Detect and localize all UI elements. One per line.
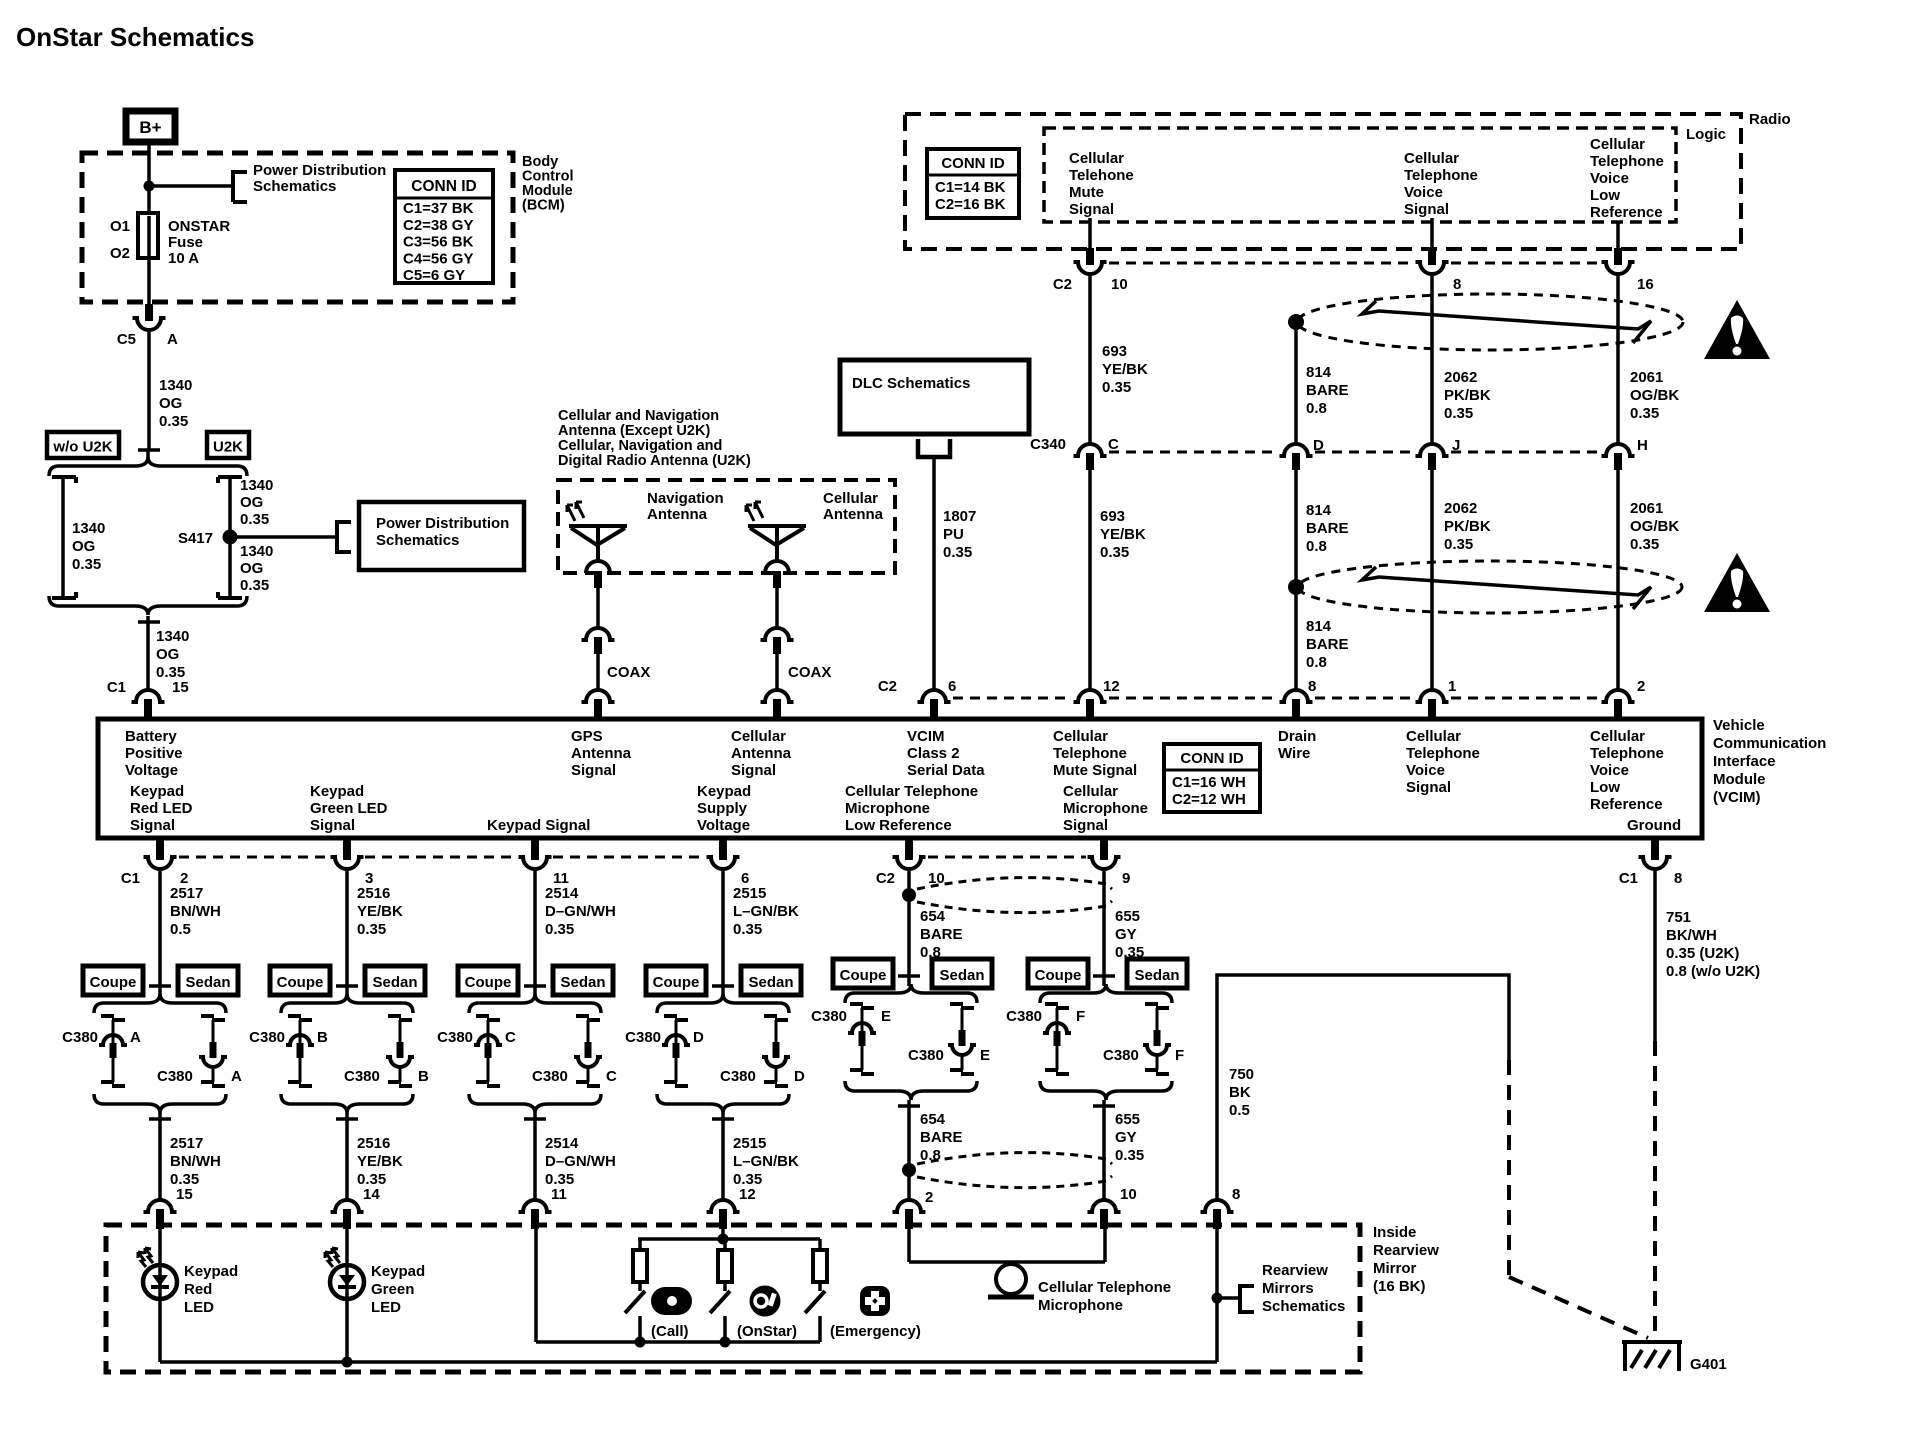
connector C340 pin H	[1602, 444, 1635, 456]
svg-text:B+: B+	[139, 118, 161, 137]
svg-text:1340: 1340	[240, 477, 273, 494]
svg-text:Red LED: Red LED	[130, 800, 193, 817]
svg-text:C340: C340	[1030, 436, 1066, 453]
svg-text:F: F	[1175, 1047, 1184, 1064]
svg-text:Schematics: Schematics	[1262, 1298, 1345, 1315]
box Power Distribution Schematics	[359, 502, 524, 570]
wire 693 YE/BK 0.35 (C340 to VCIM 12)	[1088, 470, 1092, 690]
svg-text:B: B	[317, 1029, 328, 1046]
wire voice low ref to radio pin	[1616, 221, 1620, 248]
connector VCIM bottom ground C1 pin 8	[1639, 857, 1672, 869]
svg-text:0.35: 0.35	[357, 921, 386, 938]
svg-text:Microphone: Microphone	[1038, 1297, 1123, 1314]
svg-text:Signal: Signal	[310, 817, 355, 834]
wire 814 BARE 0.8 (shield node to VCIM 8)	[1294, 587, 1298, 690]
svg-text:Antenna: Antenna	[647, 506, 708, 523]
svg-text:OG: OG	[240, 494, 263, 511]
svg-text:C2=38 GY: C2=38 GY	[403, 217, 473, 234]
svg-text:OG: OG	[156, 646, 179, 663]
wire 2515 L–GN/BK (VCIM to C380 D)	[721, 869, 725, 986]
svg-text:O1: O1	[110, 218, 130, 235]
connector C340 pin D	[1280, 444, 1313, 456]
svg-text:2516: 2516	[357, 1135, 390, 1152]
svg-text:LED: LED	[184, 1299, 214, 1316]
antenna dashed box	[558, 480, 895, 573]
svg-text:Telephone: Telephone	[1404, 167, 1478, 184]
svg-text:C380: C380	[437, 1029, 473, 1046]
svg-text:Cellular: Cellular	[1590, 136, 1645, 153]
svg-text:Sedan: Sedan	[372, 974, 417, 991]
svg-text:750: 750	[1229, 1066, 1254, 1083]
svg-text:0.35: 0.35	[1115, 1147, 1144, 1164]
svg-text:(Emergency): (Emergency)	[830, 1323, 921, 1340]
connector C380 A coupe half	[101, 1014, 114, 1018]
keypad supply wire to resistor rail	[721, 1229, 725, 1239]
wire 655 GY (VCIM to C380 F)	[1102, 869, 1106, 976]
svg-text:ONSTAR: ONSTAR	[168, 218, 230, 235]
node onstar switch to rail	[720, 1337, 731, 1348]
wire 655 GY (C380 F down)	[1102, 1100, 1106, 1200]
svg-text:2517: 2517	[170, 885, 203, 902]
warning symbol 1	[1704, 300, 1770, 359]
svg-text:2062: 2062	[1444, 500, 1477, 517]
svg-text:Sedan: Sedan	[1134, 967, 1179, 984]
wire fuse O2 to connector C5	[147, 255, 151, 304]
option box Sedan (F)	[1127, 959, 1187, 988]
wire jog above brace A	[149, 984, 171, 988]
svg-text:10 A: 10 A	[168, 250, 199, 267]
keypad red LED	[143, 1265, 177, 1299]
svg-text:(Call): (Call)	[651, 1323, 689, 1340]
svg-text:1340: 1340	[240, 543, 273, 560]
bracket Rearview Mirrors Schematics	[1217, 1296, 1240, 1300]
svg-text:814: 814	[1306, 364, 1332, 381]
svg-text:Rearview: Rearview	[1262, 1262, 1328, 1279]
svg-text:A: A	[167, 331, 178, 348]
svg-text:Mirrors: Mirrors	[1262, 1280, 1314, 1297]
svg-text:Cellular Telephone: Cellular Telephone	[1038, 1279, 1171, 1296]
svg-text:Interface: Interface	[1713, 753, 1776, 770]
CONN ID table (Radio)	[927, 149, 1019, 218]
svg-text:2061: 2061	[1630, 369, 1663, 386]
wire into keypad red LED	[158, 1229, 162, 1265]
battery feed B+	[126, 111, 175, 142]
wire 2061 OG/BK 0.35 (C340 to VCIM 2)	[1616, 470, 1620, 690]
svg-text:Mute: Mute	[1069, 184, 1104, 201]
switch common rail	[536, 1340, 820, 1344]
svg-text:C5=6 GY: C5=6 GY	[403, 267, 465, 284]
svg-text:12: 12	[1103, 678, 1120, 695]
connector mirror pin 11	[519, 1200, 552, 1212]
svg-text:Supply: Supply	[697, 800, 748, 817]
connector C380 F sedan half	[1145, 1002, 1158, 1006]
dashed case ground wire to G401	[1653, 1041, 1657, 1340]
svg-text:COAX: COAX	[788, 664, 831, 681]
option box Coupe (F)	[1028, 959, 1088, 988]
wire jog below brace F	[1093, 1104, 1115, 1108]
option box Sedan (C)	[553, 966, 613, 995]
svg-text:0.35: 0.35	[1100, 544, 1129, 561]
svg-text:0.5: 0.5	[1229, 1102, 1250, 1119]
option box Coupe (E)	[833, 959, 893, 988]
svg-text:C2: C2	[878, 678, 897, 695]
connector VCIM C2 pin 1	[1416, 690, 1449, 702]
svg-text:YE/BK: YE/BK	[357, 1153, 403, 1170]
option box Sedan (D)	[741, 966, 801, 995]
svg-text:F: F	[1076, 1008, 1085, 1025]
svg-text:Low Reference: Low Reference	[845, 817, 952, 834]
svg-text:BARE: BARE	[1306, 382, 1349, 399]
svg-text:CONN ID: CONN ID	[1180, 750, 1244, 767]
cellular telephone microphone	[996, 1264, 1026, 1294]
svg-text:GY: GY	[1115, 926, 1137, 943]
wire 814 BARE 0.8 (C340 to shield node)	[1294, 470, 1298, 587]
svg-text:C2: C2	[876, 870, 895, 887]
wire 2516 YE/BK (VCIM to C380 B)	[345, 869, 349, 986]
connector VCIM bottom keypad signal pin 11	[519, 857, 552, 869]
svg-text:Mirror: Mirror	[1373, 1260, 1417, 1277]
option brace bottom D	[657, 1094, 789, 1113]
svg-text:C1: C1	[1619, 870, 1638, 887]
svg-text:Coupe: Coupe	[1035, 967, 1082, 984]
connector C380 D coupe half	[664, 1014, 677, 1018]
svg-text:C: C	[505, 1029, 516, 1046]
radio connector pin 16	[1602, 262, 1635, 274]
Body Control Module dashed box	[82, 153, 513, 302]
connector VCIM C2 pin 12	[1074, 690, 1107, 702]
svg-text:0.8 (w/o U2K): 0.8 (w/o U2K)	[1666, 963, 1760, 980]
option box Sedan (A)	[178, 966, 238, 995]
svg-text:Signal: Signal	[1063, 817, 1108, 834]
svg-text:Antenna (Except U2K): Antenna (Except U2K)	[558, 423, 710, 439]
svg-text:D: D	[794, 1068, 805, 1085]
svg-text:0.35: 0.35	[1630, 405, 1659, 422]
Radio dashed box	[905, 114, 1741, 249]
wire 2515 L–GN/BK (C380 D to mirror pin 12)	[721, 1113, 725, 1200]
svg-text:Schematics: Schematics	[376, 532, 459, 549]
svg-text:Antenna: Antenna	[823, 506, 884, 523]
svg-text:Class 2: Class 2	[907, 745, 960, 762]
svg-text:654: 654	[920, 908, 946, 925]
wire jog below brace C	[524, 1117, 546, 1121]
svg-text:PK/BK: PK/BK	[1444, 518, 1491, 535]
svg-text:14: 14	[363, 1186, 380, 1203]
svg-text:Coupe: Coupe	[465, 974, 512, 991]
svg-text:Telehone: Telehone	[1069, 167, 1134, 184]
svg-text:U2K: U2K	[213, 439, 243, 456]
svg-text:Navigation: Navigation	[647, 490, 724, 507]
option brace bottom F	[1040, 1081, 1172, 1100]
svg-text:C380: C380	[720, 1068, 756, 1085]
option brace top F	[1040, 984, 1172, 1003]
connector C5 pin A	[133, 318, 166, 330]
svg-text:Sedan: Sedan	[939, 967, 984, 984]
connector VCIM bottom keypad green LED signal pin 3	[331, 857, 364, 869]
svg-text:Keypad: Keypad	[130, 783, 184, 800]
svg-text:GY: GY	[1115, 1129, 1137, 1146]
svg-text:655: 655	[1115, 1111, 1140, 1128]
svg-text:COAX: COAX	[607, 664, 650, 681]
option box Sedan (E)	[932, 959, 992, 988]
svg-text:Vehicle: Vehicle	[1713, 717, 1765, 734]
svg-text:Sedan: Sedan	[560, 974, 605, 991]
svg-text:Cellular: Cellular	[1590, 728, 1645, 745]
svg-text:8: 8	[1453, 276, 1461, 293]
svg-text:H: H	[1637, 437, 1648, 454]
svg-text:YE/BK: YE/BK	[1102, 361, 1148, 378]
twist arrow upper	[1362, 301, 1651, 343]
svg-text:A: A	[130, 1029, 141, 1046]
connector VCIM bottom keypad red LED signal C1 pin 2	[144, 857, 177, 869]
resistor (Call)	[638, 1239, 642, 1250]
dashed connector line C340	[1109, 451, 1277, 454]
svg-text:OG: OG	[72, 538, 95, 555]
svg-text:2517: 2517	[170, 1135, 203, 1152]
svg-text:Communication: Communication	[1713, 735, 1826, 752]
svg-text:BARE: BARE	[1306, 636, 1349, 653]
node call switch to rail	[635, 1337, 646, 1348]
svg-text:C4=56 GY: C4=56 GY	[403, 250, 473, 267]
wire green LED to common	[345, 1299, 349, 1362]
svg-text:Coupe: Coupe	[840, 967, 887, 984]
svg-text:DLC Schematics: DLC Schematics	[852, 375, 970, 392]
svg-text:1807: 1807	[943, 508, 976, 525]
bracket below DLC	[918, 439, 950, 457]
svg-text:Module: Module	[1713, 771, 1766, 788]
svg-text:Fuse: Fuse	[168, 234, 203, 251]
svg-text:6: 6	[948, 678, 956, 695]
connector mirror pin 8	[1201, 1200, 1234, 1212]
svg-text:Microphone: Microphone	[845, 800, 930, 817]
svg-text:0.35 (U2K): 0.35 (U2K)	[1666, 945, 1739, 962]
connector C380 A sedan half	[201, 1014, 214, 1018]
svg-text:L–GN/BK: L–GN/BK	[733, 1153, 799, 1170]
svg-text:Cellular: Cellular	[1404, 150, 1459, 167]
wire jog below merge	[138, 620, 160, 624]
wire 1340 OG 0.35 to VCIM C1 pin 15	[146, 616, 150, 690]
branch U2K wire 1340 OG 0.35 upper	[218, 475, 242, 479]
wire 2062 PK/BK 0.35 (C340 to VCIM 1)	[1430, 470, 1434, 690]
wire 2516 YE/BK (C380 B to mirror pin 14)	[345, 1113, 349, 1200]
wire 751 BK/WH (VCIM ground to G401)	[1653, 869, 1657, 1041]
svg-text:0.8: 0.8	[1306, 654, 1327, 671]
svg-text:0.35: 0.35	[1444, 405, 1473, 422]
svg-text:Voltage: Voltage	[125, 762, 178, 779]
svg-text:10: 10	[1120, 1186, 1137, 1203]
svg-text:655: 655	[1115, 908, 1140, 925]
Inside Rearview Mirror dashed box	[106, 1225, 1360, 1372]
svg-text:Voltage: Voltage	[697, 817, 750, 834]
svg-text:2061: 2061	[1630, 500, 1663, 517]
wire jog below brace D	[712, 1117, 734, 1121]
shield node 654 upper	[902, 888, 916, 902]
fuse F: ONSTAR Fuse 10 A	[138, 213, 158, 258]
riser to mirror pin 8	[1215, 1229, 1219, 1362]
option brace top D	[657, 994, 789, 1013]
svg-text:2514: 2514	[545, 1135, 579, 1152]
switch (Call)	[638, 1282, 642, 1291]
svg-text:CONN ID: CONN ID	[411, 178, 476, 195]
button icon (Call)	[651, 1287, 692, 1315]
button icon (OnStar)	[750, 1286, 781, 1317]
svg-text:Cellular, Navigation and: Cellular, Navigation and	[558, 438, 722, 454]
connector VCIM C2 pin 8	[1280, 690, 1313, 702]
connector C380 C sedan half	[576, 1014, 589, 1018]
svg-text:Telephone: Telephone	[1590, 153, 1664, 170]
svg-text:OG: OG	[240, 560, 263, 577]
svg-text:C1=14 BK: C1=14 BK	[935, 179, 1006, 196]
wire 693 YE/BK 0.35 (radio to C340)	[1088, 274, 1092, 444]
svg-text:12: 12	[739, 1186, 756, 1203]
connector C1 pin 15 (VCIM battery)	[132, 690, 165, 702]
wire 2517 BN/WH (C380 A to mirror pin 15)	[158, 1113, 162, 1200]
wire 1807 PU 0.35 serial data	[932, 457, 936, 690]
svg-text:GPS: GPS	[571, 728, 603, 745]
svg-text:2: 2	[925, 1189, 933, 1206]
wire 654 BARE (VCIM to C380 E)	[907, 869, 911, 976]
svg-text:E: E	[881, 1008, 891, 1025]
dashed connector line VCIM C1 bottom	[179, 856, 329, 859]
connector C380 E sedan half	[950, 1002, 963, 1006]
svg-text:C2=12 WH: C2=12 WH	[1172, 791, 1246, 808]
svg-text:0.5: 0.5	[170, 921, 191, 938]
svg-text:Antenna: Antenna	[731, 745, 792, 762]
svg-text:Low: Low	[1590, 779, 1620, 796]
svg-text:0.35: 0.35	[240, 511, 269, 528]
svg-text:S417: S417	[178, 530, 213, 547]
wire B+ to fuse O1	[147, 142, 151, 213]
keypad signal wire to switch common	[534, 1229, 538, 1342]
wire jog above brace F	[1093, 974, 1115, 978]
option box Coupe (D)	[646, 966, 706, 995]
svg-text:Drain: Drain	[1278, 728, 1316, 745]
svg-text:Telephone: Telephone	[1406, 745, 1480, 762]
coax wire GPS antenna	[596, 588, 600, 628]
svg-text:11: 11	[551, 1186, 567, 1203]
wire jog above brace C	[524, 984, 546, 988]
connector VCIM C2 pin 2	[1602, 690, 1635, 702]
svg-text:YE/BK: YE/BK	[1100, 526, 1146, 543]
connector VCIM bottom keypad supply voltage pin 6	[707, 857, 740, 869]
svg-text:8: 8	[1232, 1186, 1240, 1203]
svg-text:15: 15	[172, 679, 189, 696]
switch (Emergency)	[818, 1282, 822, 1291]
svg-text:C380: C380	[157, 1068, 193, 1085]
radio connector pin 8	[1416, 262, 1449, 274]
svg-text:1: 1	[1448, 678, 1456, 695]
svg-text:B: B	[418, 1068, 429, 1085]
dashed connector line VCIM C2 top	[953, 697, 1071, 700]
coax wire cellular antenna	[775, 588, 779, 628]
connector mirror pin 14	[331, 1200, 364, 1212]
svg-text:C380: C380	[344, 1068, 380, 1085]
splice S417	[223, 530, 238, 545]
svg-text:BARE: BARE	[1306, 520, 1349, 537]
svg-text:1340: 1340	[72, 520, 105, 537]
svg-text:Signal: Signal	[1406, 779, 1451, 796]
svg-text:Power Distribution: Power Distribution	[376, 515, 509, 532]
resistor (OnStar)	[723, 1239, 727, 1250]
svg-text:Keypad Signal: Keypad Signal	[487, 817, 590, 834]
wire junction to PDS bracket	[149, 184, 233, 188]
svg-text:Digital Radio Antenna (U2K): Digital Radio Antenna (U2K)	[558, 453, 751, 469]
svg-text:C1=16 WH: C1=16 WH	[1172, 774, 1246, 791]
svg-text:0.35: 0.35	[1444, 536, 1473, 553]
svg-text:C2: C2	[1053, 276, 1072, 293]
svg-text:Voice: Voice	[1590, 762, 1629, 779]
wire S417 to Power Distribution Schematics	[237, 535, 337, 539]
svg-text:G401: G401	[1690, 1356, 1727, 1373]
svg-text:Rearview: Rearview	[1373, 1242, 1439, 1259]
connector GPS antenna into VCIM	[582, 690, 615, 702]
connector C380 D sedan half	[764, 1014, 777, 1018]
svg-text:C380: C380	[1006, 1008, 1042, 1025]
svg-text:2062: 2062	[1444, 369, 1477, 386]
svg-text:Cellular: Cellular	[1063, 783, 1118, 800]
option box Coupe (B)	[270, 966, 330, 995]
svg-text:Keypad: Keypad	[310, 783, 364, 800]
connector C380 B coupe half	[288, 1014, 301, 1018]
svg-text:C380: C380	[908, 1047, 944, 1064]
connector C340 pin C	[1074, 444, 1107, 456]
svg-text:(OnStar): (OnStar)	[737, 1323, 797, 1340]
svg-text:0.8: 0.8	[1306, 400, 1327, 417]
svg-text:C380: C380	[62, 1029, 98, 1046]
branch w/o U2K wire 1340 OG 0.35	[52, 475, 76, 479]
svg-text:Mute Signal: Mute Signal	[1053, 762, 1137, 779]
option box U2K	[207, 432, 249, 458]
connector mirror pin 15	[144, 1200, 177, 1212]
svg-text:C380: C380	[1103, 1047, 1139, 1064]
connector mirror pin 2	[893, 1200, 926, 1212]
navigation antenna ANT1	[569, 526, 627, 561]
svg-text:Keypad: Keypad	[184, 1263, 238, 1280]
microphone wires	[907, 1229, 911, 1262]
coax connector upper (GPS)	[582, 628, 615, 640]
svg-text:Sedan: Sedan	[748, 974, 793, 991]
off-page bracket: Power Distribution Schematics	[231, 170, 235, 202]
svg-text:693: 693	[1102, 343, 1127, 360]
wire 2062 PK/BK 0.35 (radio to C340 J)	[1430, 274, 1434, 444]
split brace bottom	[49, 596, 247, 615]
svg-text:Sedan: Sedan	[185, 974, 230, 991]
svg-text:Cellular Telephone: Cellular Telephone	[845, 783, 978, 800]
svg-text:Schematics: Schematics	[253, 178, 336, 195]
svg-text:Inside: Inside	[1373, 1224, 1416, 1241]
wire jog below brace E	[898, 1104, 920, 1108]
switch (OnStar)	[723, 1282, 727, 1291]
off-page bracket to PDS box	[335, 520, 339, 554]
twisted pair ellipse (voice pair upper)	[1297, 294, 1683, 350]
wire 2514 D–GN/WH (VCIM to C380 C)	[533, 869, 537, 986]
option box Coupe (A)	[83, 966, 143, 995]
svg-text:Coupe: Coupe	[90, 974, 137, 991]
split brace top	[49, 457, 247, 476]
svg-text:Cellular: Cellular	[1406, 728, 1461, 745]
connector mirror pin 12	[707, 1200, 740, 1212]
svg-text:2515: 2515	[733, 885, 766, 902]
svg-text:0.8: 0.8	[1306, 538, 1327, 555]
wire 814 BARE 0.8 (to C340 D)	[1294, 322, 1298, 444]
twisted pair ellipse mic lower	[917, 1153, 1112, 1164]
dashed mirror case ground to G401	[1507, 1060, 1511, 1277]
svg-text:2: 2	[1637, 678, 1645, 695]
svg-text:Wire: Wire	[1278, 745, 1310, 762]
svg-text:Signal: Signal	[1404, 201, 1449, 218]
node: junction to Power Distribution	[144, 181, 155, 192]
svg-text:Antenna: Antenna	[571, 745, 632, 762]
option box Coupe (C)	[458, 966, 518, 995]
